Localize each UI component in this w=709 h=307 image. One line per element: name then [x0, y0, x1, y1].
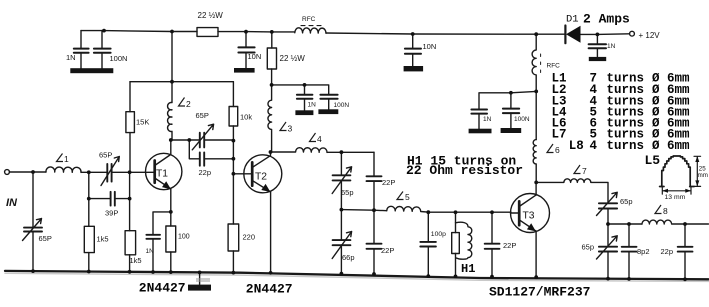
- ground bar (right pair 1N): [469, 129, 492, 134]
- inductor H1 (coil on 22 ohm resistor): [455, 212, 457, 276]
- resistor 15K: [129, 82, 131, 172]
- label L2: [179, 98, 186, 107]
- ground bar (under left 10N): [234, 68, 255, 73]
- svg-text:2: 2: [186, 99, 191, 109]
- svg-text:RFC: RFC: [547, 63, 561, 70]
- inductor RFC (top, horizontal): [295, 28, 326, 33]
- junction node (172,31.5): [170, 30, 174, 34]
- junction node (608,278.6): [606, 277, 610, 281]
- wire mid row: [341, 210, 386, 211]
- junction node (536.2,182.4): [534, 181, 538, 185]
- svg-text:5: 5: [405, 192, 410, 202]
- junction node (270.5,152): [269, 150, 273, 154]
- svg-text:65P: 65P: [99, 151, 112, 160]
- junction node (304.5,84.9): [303, 83, 307, 87]
- svg-text:8p2: 8p2: [637, 247, 650, 256]
- svg-text:2N4427: 2N4427: [139, 281, 186, 296]
- wire caps tap (right pair): [479, 91, 536, 109]
- svg-text:L7: L7: [552, 128, 567, 142]
- svg-text:1N: 1N: [146, 248, 155, 255]
- svg-text:4: 4: [317, 134, 322, 144]
- resistor 10K: [232, 82, 234, 141]
- junction node (170.8,272.1): [169, 270, 173, 274]
- junction node (685,279.3): [683, 277, 687, 281]
- svg-text:100N: 100N: [110, 54, 128, 63]
- ground bar (D1 1N): [589, 57, 606, 61]
- svg-text:65p: 65p: [341, 188, 354, 197]
- svg-text:22P: 22P: [503, 241, 516, 250]
- capacitor C 1N (top-left): [80, 31, 82, 69]
- svg-text:65P: 65P: [39, 234, 52, 243]
- svg-text:1N: 1N: [308, 102, 317, 109]
- svg-text:22p: 22p: [661, 247, 674, 256]
- junction node (455.5,276.4): [454, 275, 458, 279]
- label L1: [57, 154, 64, 162]
- capacitor C 100N (right pair): [503, 109, 519, 114]
- junction node (104,30.6): [102, 29, 106, 33]
- svg-text:15K: 15K: [136, 118, 149, 127]
- junction node (170.8,211.9): [169, 210, 173, 214]
- svg-text:IN: IN: [6, 197, 18, 209]
- ground bar (mid 1N): [295, 110, 313, 115]
- junction node (153,272): [151, 270, 155, 274]
- junction node (170.8,140): [169, 138, 173, 142]
- svg-text:6mm: 6mm: [667, 139, 690, 153]
- label L5 (coil): [397, 192, 404, 200]
- junction node (629,278.9): [627, 277, 631, 281]
- wire output row: [608, 223, 642, 225]
- wire 10K column to T2 base: [232, 141, 234, 174]
- junction node (455.5,212.3): [454, 210, 458, 214]
- svg-text:1k5: 1k5: [97, 235, 109, 244]
- wire top rail: [81, 31, 629, 35]
- junction node (199.6,272.4): [198, 271, 202, 275]
- capacitor 22P (mid upper): [373, 152, 375, 210]
- svg-text:22P: 22P: [382, 178, 395, 187]
- label L6: [547, 144, 554, 153]
- capacitor C 100N (top-left): [101, 31, 103, 69]
- svg-text:10N: 10N: [248, 52, 262, 61]
- capacitor C 1N (at D1): [596, 34, 598, 56]
- ground symbol (below bus): [199, 273, 201, 285]
- junction node (129.6,198.6): [128, 197, 132, 201]
- wire bias drop: [130, 32, 233, 82]
- svg-text:L8: L8: [569, 139, 584, 153]
- junction node (88.8,271.5): [87, 270, 91, 274]
- svg-text:1: 1: [64, 154, 69, 164]
- inductor L4: [271, 148, 375, 153]
- capacitor C 100N (mid pair): [320, 95, 337, 99]
- junction node (33,172): [31, 170, 35, 174]
- junction node (685,224): [683, 222, 687, 226]
- ground bar (right 10N): [404, 66, 424, 71]
- svg-text:39P: 39P: [105, 209, 118, 218]
- svg-text:turns: turns: [607, 139, 645, 153]
- inductor L5: [387, 206, 511, 212]
- junction node (510.9,92.8): [509, 91, 513, 95]
- junction node (129.6,271.8): [128, 270, 132, 274]
- junction node (608,224): [606, 222, 610, 226]
- resistor 1K5 (first): [88, 199, 90, 272]
- svg-text:SD1127/MRF237: SD1127/MRF237: [489, 285, 590, 300]
- svg-text:RFC: RFC: [302, 16, 316, 23]
- svg-text:100N: 100N: [334, 102, 350, 109]
- svg-text:22p: 22p: [199, 168, 212, 177]
- trimmer 65P (output series): [599, 203, 617, 208]
- svg-text:L5: L5: [645, 153, 661, 168]
- junction node (492,276.7): [490, 275, 494, 279]
- label L7: [574, 165, 581, 174]
- svg-text:1k5: 1k5: [130, 256, 142, 265]
- svg-text:100N: 100N: [514, 116, 530, 123]
- svg-text:3: 3: [288, 124, 293, 134]
- junction node (33,271.1): [31, 269, 35, 273]
- junction node (492,212.3): [490, 210, 494, 214]
- diode D1: [564, 26, 566, 44]
- junction node (172,81.7): [170, 80, 174, 84]
- svg-text:T2: T2: [255, 172, 267, 183]
- svg-text:7: 7: [582, 166, 587, 176]
- resistor 220: [232, 174, 234, 273]
- capacitor C 10N (right): [412, 34, 414, 66]
- svg-text:65P: 65P: [196, 111, 209, 120]
- svg-text:10k: 10k: [240, 113, 252, 122]
- wire L2/T1 collector node to trimmer: [171, 139, 234, 141]
- wire input: [9, 171, 46, 173]
- svg-text:65p: 65p: [620, 197, 633, 206]
- svg-text:2 Amps: 2 Amps: [583, 11, 630, 26]
- L5 coil former drawing: [662, 156, 690, 186]
- inductor L1: [46, 167, 89, 172]
- svg-text:T1: T1: [156, 169, 168, 180]
- wire caps tap (1N/100N mid pair): [272, 85, 329, 94]
- svg-text:1N: 1N: [66, 53, 76, 62]
- svg-text:66p: 66p: [342, 253, 355, 262]
- inductor L3: [268, 85, 272, 152]
- junction node (271.8,31.9): [270, 30, 274, 34]
- label L8 (coil): [655, 205, 662, 214]
- svg-text:22 Ohm resistor: 22 Ohm resistor: [406, 163, 523, 178]
- junction node (233.4,140.6): [232, 139, 236, 143]
- junction node (428.3,276.1): [426, 274, 430, 278]
- junction node (129.6,172.3): [128, 170, 132, 174]
- transistor T2: [244, 155, 282, 193]
- junction node (341.4,209.6): [340, 208, 344, 212]
- label L3: [280, 122, 287, 131]
- svg-text:22 ½W: 22 ½W: [280, 54, 306, 63]
- trimmer 65P (output shunt): [607, 224, 609, 279]
- svg-text:6: 6: [555, 145, 560, 155]
- svg-text:T3: T3: [523, 211, 535, 222]
- capacitor C 10N (left): [245, 32, 247, 68]
- trimmer 65P (series input): [89, 171, 130, 173]
- trimmer 65P (input shunt): [32, 172, 34, 271]
- junction node (270.6,272.9): [269, 271, 273, 275]
- junction node (246,31.7): [244, 30, 248, 34]
- capacitor 22P (mid lower): [373, 210, 375, 274]
- resistor 100: [170, 212, 172, 272]
- svg-text:100: 100: [178, 234, 190, 241]
- junction node (374,210.2): [372, 208, 376, 212]
- terminal IN: [5, 170, 10, 175]
- ground bar (mid 100N): [318, 109, 338, 114]
- resistor 1K5 (second): [129, 172, 131, 272]
- inductor L7: [536, 179, 608, 203]
- svg-text:H1: H1: [461, 262, 475, 276]
- svg-text:13 mm: 13 mm: [665, 194, 686, 201]
- trimmer 66P (mid shunt lower): [340, 210, 342, 274]
- label L4: [310, 133, 317, 142]
- trimmer 65P (T1-T2 coupling): [200, 133, 204, 148]
- inductor RFC (vertical): [532, 34, 536, 139]
- junction node (271.6,84.9): [270, 83, 274, 87]
- junction node (412.7,34): [411, 32, 415, 36]
- inductor L2: [168, 82, 172, 140]
- junction node (428.3,212.2): [426, 210, 430, 214]
- junction node (536.2,91.4): [534, 90, 538, 94]
- svg-text:D1: D1: [566, 13, 579, 25]
- svg-text:+ 12V: + 12V: [639, 31, 661, 40]
- capacitor 22P (driver): [491, 212, 493, 276]
- terminal +12V: [630, 31, 635, 36]
- junction node (629,224): [627, 222, 631, 226]
- junction node (536.2,277.2): [534, 275, 538, 279]
- junction node (536.2,34.2): [534, 32, 538, 36]
- junction node (233.4,158.8): [232, 157, 236, 161]
- capacitor C 1N (right pair): [471, 110, 487, 114]
- inductor L6: [533, 140, 536, 183]
- svg-text:10N: 10N: [423, 42, 437, 51]
- svg-text:4: 4: [590, 139, 598, 153]
- ground bar (right pair 100N): [501, 128, 522, 133]
- wire T1 emitter node: [153, 212, 171, 272]
- svg-text:1N: 1N: [607, 43, 616, 50]
- dimension arrow 25mm: [694, 156, 701, 186]
- trimmer 65P (mid shunt upper): [340, 152, 342, 209]
- capacitor 8p2: [628, 224, 630, 279]
- svg-text:2N4427: 2N4427: [246, 281, 293, 296]
- svg-text:1N: 1N: [483, 116, 492, 123]
- svg-text:65p: 65p: [582, 242, 595, 251]
- svg-text:mm: mm: [698, 172, 708, 179]
- junction node (189.3,140): [187, 138, 191, 142]
- transistor T1: [146, 153, 182, 189]
- svg-text:22 ½W: 22 ½W: [198, 11, 224, 20]
- junction node (341.4,152.2): [340, 150, 344, 154]
- capacitor 39P: [89, 172, 130, 198]
- resistor 22 1/2W (vertical): [271, 32, 273, 85]
- capacitor 1N (T1 emitter): [146, 235, 160, 239]
- ground bar (under 1N/100N pair): [70, 68, 113, 73]
- svg-text:220: 220: [243, 233, 256, 242]
- capacitor 100P: [427, 212, 429, 276]
- dimension arrow 13mm: [662, 188, 691, 195]
- junction node (233.4,173.8): [232, 172, 236, 176]
- junction node (597.4,34.4): [596, 33, 600, 37]
- resistor 22 1/2W (horizontal on rail): [197, 28, 218, 37]
- capacitor 22P (T1-T2 coupling): [189, 140, 233, 159]
- svg-text:8: 8: [663, 206, 668, 216]
- transistor T3: [511, 194, 550, 233]
- svg-text:100p: 100p: [431, 231, 446, 238]
- junction node (88.8,172.3): [87, 170, 91, 174]
- capacitor C 1N (mid pair): [297, 95, 313, 99]
- inductor L8: [642, 220, 709, 224]
- junction node (88.8,198.6): [87, 197, 91, 201]
- junction node (374,274): [372, 272, 376, 276]
- svg-text:Ø: Ø: [652, 139, 660, 153]
- capacitor 22p (output): [684, 224, 686, 279]
- junction node (233.4,272.6): [232, 271, 236, 275]
- ground bus: [5, 271, 709, 279]
- junction node (341.4,273.6): [340, 272, 344, 276]
- svg-text:22P: 22P: [381, 246, 394, 255]
